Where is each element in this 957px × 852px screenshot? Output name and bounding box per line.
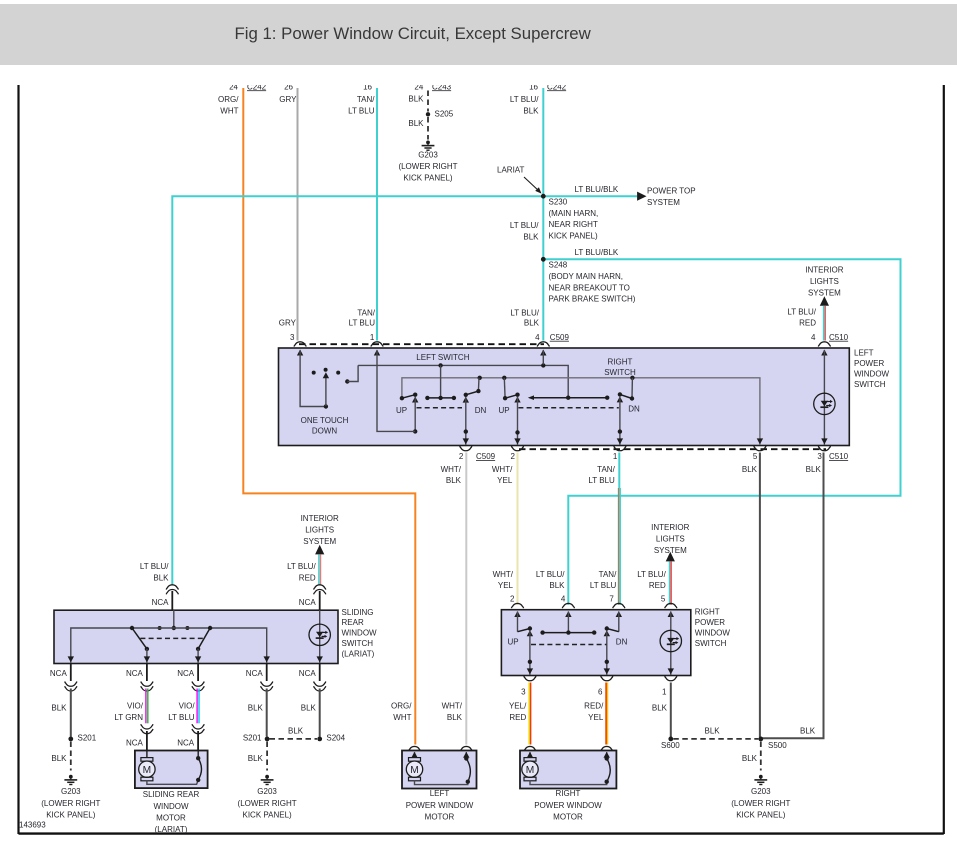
- svg-text:5: 5: [661, 594, 666, 603]
- svg-text:BLK: BLK: [742, 754, 758, 763]
- svg-text:BLK: BLK: [523, 233, 539, 242]
- svg-text:LT BLU: LT BLU: [588, 476, 615, 485]
- svg-text:ORG/: ORG/: [218, 95, 239, 104]
- svg-text:SLIDING: SLIDING: [342, 608, 374, 617]
- svg-text:4: 4: [561, 594, 566, 603]
- mechanical link left switch (dashed): [417, 407, 463, 409]
- svg-text:LT BLU/: LT BLU/: [536, 570, 565, 579]
- LARIAT callout with arrow: [497, 166, 542, 194]
- LEFT SWITCH feed line: [358, 363, 568, 398]
- wire ORG/WHT from C242 pin 24 (vertical + route to left motor): [243, 88, 415, 745]
- svg-text:BLK: BLK: [806, 465, 822, 474]
- NCA labels below sliding switch: [50, 669, 316, 678]
- svg-text:NCA: NCA: [246, 669, 264, 678]
- labels YEL/RED: [509, 702, 527, 722]
- label DN (right switch in left box): [628, 405, 640, 414]
- svg-text:TAN/: TAN/: [357, 309, 375, 318]
- svg-text:WHT/: WHT/: [442, 702, 463, 711]
- svg-text:2: 2: [459, 452, 464, 461]
- svg-text:WINDOW: WINDOW: [854, 370, 890, 379]
- svg-text:BLK: BLK: [248, 754, 264, 763]
- illumination lamp (left power window switch): [814, 350, 835, 445]
- svg-text:TAN/: TAN/: [597, 465, 615, 474]
- svg-text:S248: S248: [549, 261, 568, 270]
- label UP (right switch): [499, 406, 510, 415]
- sliding switch center feed: [158, 610, 190, 630]
- svg-text:POWER TOP: POWER TOP: [647, 187, 696, 196]
- svg-text:VIO/: VIO/: [127, 702, 144, 711]
- svg-text:(LOWER RIGHT: (LOWER RIGHT: [238, 799, 297, 808]
- svg-text:BLK: BLK: [524, 319, 540, 328]
- svg-text:BLK: BLK: [408, 95, 424, 104]
- svg-text:WHT: WHT: [220, 107, 238, 116]
- pin label 24 C242 (ORG/WHT): [229, 82, 267, 91]
- label LEFT SWITCH: [416, 353, 469, 362]
- svg-text:SLIDING REAR: SLIDING REAR: [143, 790, 200, 799]
- svg-text:2: 2: [510, 594, 515, 603]
- svg-text:RIGHT: RIGHT: [608, 358, 633, 367]
- connector arcs top pins 3 1 4 4: [294, 342, 831, 347]
- svg-text:1: 1: [662, 687, 667, 696]
- labels LT BLU/RED + NCA at lamp feed: [287, 562, 316, 607]
- svg-text:LEFT: LEFT: [854, 349, 874, 358]
- BLK dashed to ground mid: [248, 742, 267, 771]
- svg-text:MOTOR: MOTOR: [553, 813, 583, 822]
- BLK dashed to ground right: [742, 742, 761, 771]
- svg-text:LT BLU/: LT BLU/: [787, 307, 816, 316]
- svg-text:C509: C509: [550, 333, 570, 342]
- label LEFT POWER WINDOW SWITCH: [854, 349, 890, 389]
- svg-text:LT BLU: LT BLU: [349, 319, 376, 328]
- BLK solid link S500 to pin3 wire: [800, 726, 816, 735]
- wire BLK from pin 3 C510 down and left to S500: [762, 453, 824, 739]
- splice S248: [541, 257, 546, 262]
- svg-text:BLK: BLK: [446, 476, 462, 485]
- illumination lamp (right power window switch): [660, 611, 681, 675]
- svg-text:NCA: NCA: [50, 669, 68, 678]
- label RIGHT POWER WINDOW SWITCH: [695, 608, 731, 648]
- label BLK left: [51, 704, 67, 713]
- figure number 143693: [19, 821, 46, 830]
- svg-text:DN: DN: [628, 405, 640, 414]
- label LEFT POWER WINDOW MOTOR: [406, 789, 474, 821]
- svg-text:S600: S600: [661, 741, 680, 750]
- BLK dashed bus S201-S204: [270, 726, 318, 739]
- svg-text:S500: S500: [768, 741, 787, 750]
- svg-text:REAR: REAR: [342, 618, 364, 627]
- svg-text:NCA: NCA: [299, 669, 317, 678]
- svg-text:WHT/: WHT/: [441, 465, 462, 474]
- ground G203 upper: [398, 141, 457, 183]
- mechanical link right power window switch (dashed): [531, 644, 606, 646]
- svg-text:SWITCH: SWITCH: [342, 639, 374, 648]
- svg-text:NCA: NCA: [177, 738, 195, 747]
- labels WHT/BLK above left motor: [442, 702, 463, 722]
- svg-text:YEL: YEL: [497, 476, 513, 485]
- sliding switch right arm: [195, 626, 212, 663]
- label S230 (MAIN HARN NEAR RIGHT KICK PANEL): [549, 198, 599, 241]
- svg-text:BLK: BLK: [248, 704, 264, 713]
- svg-text:NEAR BREAKOUT TO: NEAR BREAKOUT TO: [549, 283, 630, 292]
- motor reversing arc (sliding rear): [196, 751, 202, 783]
- svg-text:LT BLU/: LT BLU/: [510, 309, 539, 318]
- svg-text:LT GRN: LT GRN: [114, 713, 143, 722]
- label BLK: [248, 704, 264, 713]
- svg-text:SWITCH: SWITCH: [854, 380, 886, 389]
- svg-text:POWER: POWER: [695, 618, 725, 627]
- left switch DN contact: [463, 378, 481, 445]
- inline connector NCA (VIO/LT GRN to motor): [126, 724, 153, 750]
- splice S600 + label: [661, 737, 680, 750]
- connector C509 dashed line top: [299, 343, 544, 345]
- wire WHT/BLK from pin 2 to left motor: [465, 453, 467, 745]
- motor reversing arc (left power window): [463, 752, 470, 784]
- motor M (sliding rear): [139, 751, 199, 785]
- wire LT BLU/BLK branch from S248 right and down to right switch pin 4: [543, 259, 900, 605]
- svg-text:G203: G203: [418, 151, 438, 160]
- svg-text:LT BLU/: LT BLU/: [510, 95, 539, 104]
- sliding switch bus line: [68, 628, 270, 663]
- wire LT BLU/BLK main vertical from C242 pin 16: [542, 88, 544, 341]
- svg-text:5: 5: [753, 452, 758, 461]
- svg-text:NCA: NCA: [299, 598, 317, 607]
- svg-text:(LARIAT): (LARIAT): [342, 649, 375, 658]
- svg-text:MOTOR: MOTOR: [156, 814, 186, 823]
- labels VIO/LT BLU: [168, 702, 195, 722]
- bottom pin labels 3 6 1 right switch: [521, 687, 667, 696]
- svg-text:BLK: BLK: [652, 704, 668, 713]
- svg-text:RED: RED: [299, 574, 316, 583]
- label DN (left switch): [475, 406, 487, 415]
- svg-text:YEL/: YEL/: [509, 702, 527, 711]
- sliding switch left arm: [130, 626, 150, 663]
- svg-text:SWITCH: SWITCH: [604, 368, 636, 377]
- svg-text:G203: G203: [257, 787, 277, 796]
- right switch center contacts (in left box): [528, 395, 610, 400]
- right switch DN contact (in left box): [617, 378, 635, 445]
- mechanical link sliding switch (dashed): [140, 637, 205, 639]
- pin label 26 (GRY): [284, 82, 293, 91]
- interior lights system arrow above sliding switch: [301, 514, 339, 585]
- svg-text:LIGHTS: LIGHTS: [810, 277, 839, 286]
- one touch down: link to LEFT SWITCH feed: [345, 365, 358, 383]
- svg-text:NCA: NCA: [126, 738, 144, 747]
- svg-text:DN: DN: [616, 637, 628, 646]
- inline connectors below sliding switch: [65, 664, 326, 691]
- pin label 16 (TAN/LT BLU): [363, 82, 372, 91]
- splice S230: [541, 194, 546, 199]
- svg-text:LARIAT: LARIAT: [497, 166, 525, 175]
- svg-text:WHT: WHT: [393, 713, 411, 722]
- svg-text:INTERIOR: INTERIOR: [805, 266, 843, 275]
- svg-text:M: M: [143, 765, 152, 776]
- svg-text:UP: UP: [499, 406, 510, 415]
- svg-text:BLK: BLK: [549, 581, 565, 590]
- svg-text:(LOWER RIGHT: (LOWER RIGHT: [398, 162, 457, 171]
- splice S500 + label: [758, 737, 787, 750]
- svg-text:NCA: NCA: [177, 669, 195, 678]
- top edge clip (cropped pin text): [0, 65, 957, 85]
- svg-text:6: 6: [598, 687, 603, 696]
- one touch down: pin 3 entry and contact: [297, 350, 340, 409]
- left switch UP contact: [400, 393, 419, 434]
- label BLK: [301, 704, 317, 713]
- label BLK below pin 3: [806, 465, 822, 474]
- svg-text:7: 7: [609, 594, 614, 603]
- wire LT BLU/BLK branch right to POWER TOP SYSTEM: [543, 195, 637, 197]
- svg-text:BLK: BLK: [523, 107, 539, 116]
- svg-text:LIGHTS: LIGHTS: [656, 535, 685, 544]
- svg-text:LT BLU/: LT BLU/: [637, 570, 666, 579]
- label ONE TOUCH DOWN: [301, 416, 349, 436]
- svg-text:S201: S201: [78, 734, 97, 743]
- svg-text:4: 4: [811, 333, 816, 342]
- svg-text:KICK PANEL): KICK PANEL): [736, 811, 786, 820]
- svg-text:DOWN: DOWN: [312, 426, 338, 435]
- second feed line (gray) to pin 5: [402, 376, 763, 445]
- sliding rear window switch box: [54, 610, 338, 663]
- wire VIO/LT GRN: [146, 689, 148, 724]
- labels RED/YEL: [584, 702, 604, 722]
- interior lights system arrow top right: [805, 266, 843, 341]
- svg-text:LT BLU/: LT BLU/: [510, 221, 539, 230]
- label GRY top: [279, 95, 297, 104]
- splice S204 + label: [317, 734, 345, 743]
- wire BLK to S201 right: [266, 689, 268, 737]
- svg-text:ONE TOUCH: ONE TOUCH: [301, 416, 349, 425]
- svg-text:WHT/: WHT/: [492, 465, 513, 474]
- left power window switch box: [279, 348, 850, 446]
- svg-text:ORG/: ORG/: [391, 702, 412, 711]
- svg-text:LT BLU: LT BLU: [348, 107, 375, 116]
- label RIGHT POWER WINDOW MOTOR: [534, 789, 602, 821]
- label DN (right power window switch): [616, 637, 628, 646]
- ground G203 bottom left: [41, 775, 100, 820]
- svg-text:M: M: [410, 765, 419, 776]
- svg-text:143693: 143693: [19, 821, 46, 830]
- svg-text:VIO/: VIO/: [179, 702, 196, 711]
- svg-text:BLK: BLK: [408, 119, 424, 128]
- svg-text:RED: RED: [649, 581, 666, 590]
- svg-text:WINDOW: WINDOW: [153, 802, 189, 811]
- right power window motor box: [520, 746, 616, 788]
- svg-text:KICK PANEL): KICK PANEL): [46, 811, 96, 820]
- label BLK below pin 1: [652, 704, 668, 713]
- label POWER TOP SYSTEM: [647, 187, 696, 207]
- svg-text:KICK PANEL): KICK PANEL): [549, 232, 599, 241]
- wire BLK to S201 left: [70, 689, 72, 737]
- svg-text:Fig 1: Power Window Circuit, E: Fig 1: Power Window Circuit, Except Supe…: [235, 24, 592, 43]
- svg-text:(LARIAT): (LARIAT): [155, 825, 188, 834]
- svg-text:SYSTEM: SYSTEM: [647, 198, 680, 207]
- connector arcs bottom pins right switch: [524, 676, 677, 681]
- svg-text:TAN/: TAN/: [357, 95, 375, 104]
- wire BLK pin 1 to S600: [670, 683, 672, 738]
- wire WHT/YEL from pin 2 to right switch pin 2: [517, 453, 519, 605]
- splice S201 right + label: [243, 734, 270, 743]
- svg-text:NCA: NCA: [152, 598, 170, 607]
- right switch DN contact: [604, 611, 622, 675]
- svg-text:LT BLU: LT BLU: [168, 713, 195, 722]
- svg-text:LT BLU/: LT BLU/: [140, 562, 169, 571]
- svg-text:RIGHT: RIGHT: [556, 789, 581, 798]
- right switch UP contact: [514, 611, 533, 675]
- svg-text:3: 3: [290, 333, 295, 342]
- wire BLK from pin 5 to S500: [759, 453, 761, 738]
- right switch center contacts: [540, 611, 596, 635]
- svg-text:NEAR RIGHT: NEAR RIGHT: [549, 220, 598, 229]
- svg-text:LT BLU/BLK: LT BLU/BLK: [575, 248, 619, 257]
- pin 1 entry wire to UP contact: [374, 350, 415, 432]
- inline connector NCA (VIO/LT BLU to motor): [177, 724, 204, 750]
- svg-text:S201: S201: [243, 734, 262, 743]
- svg-text:INTERIOR: INTERIOR: [651, 523, 689, 532]
- motor M (left power window): [406, 752, 468, 785]
- svg-text:PARK BRAKE SWITCH): PARK BRAKE SWITCH): [549, 295, 636, 304]
- svg-text:SWITCH: SWITCH: [695, 639, 727, 648]
- label LT BLU/BLK above pin 4 C509: [0, 0, 1, 1]
- wire TAN/LT BLU from pin 16 to switch pin 1: [376, 88, 378, 341]
- interior lights system arrow above right switch: [651, 523, 689, 605]
- label TAN/LT BLU above switch + pin 1: [349, 309, 376, 342]
- svg-text:NCA: NCA: [126, 669, 144, 678]
- svg-text:UP: UP: [508, 637, 519, 646]
- svg-text:KICK PANEL): KICK PANEL): [403, 174, 453, 183]
- svg-text:YEL: YEL: [588, 713, 604, 722]
- svg-text:SYSTEM: SYSTEM: [303, 537, 336, 546]
- header title bar: [0, 4, 957, 65]
- svg-text:GRY: GRY: [279, 318, 297, 327]
- labels LT BLU/BLK + NCA at sliding switch feed: [140, 562, 169, 607]
- svg-text:S205: S205: [435, 110, 454, 119]
- labels WHT/YEL below pin 2: [492, 465, 513, 485]
- left power window motor box: [402, 746, 477, 788]
- pin numbers 2 4 7 5 above right switch: [510, 594, 666, 603]
- svg-text:1: 1: [613, 452, 618, 461]
- BLK dashed bus S600-S500: [673, 726, 758, 739]
- svg-text:LT BLU: LT BLU: [590, 581, 617, 590]
- connector arcs bottom pins 2 2 1 5 3: [460, 446, 831, 451]
- svg-text:RED: RED: [799, 319, 816, 328]
- motor M (right power window): [522, 752, 607, 785]
- ground G203 bottom right: [731, 775, 790, 820]
- svg-text:POWER WINDOW: POWER WINDOW: [406, 801, 474, 810]
- svg-text:BLK: BLK: [800, 726, 816, 735]
- label GRY above switch + pin 3: [279, 318, 297, 341]
- label LT BLU/BLK between S230 and S248: [510, 221, 539, 241]
- svg-text:BLK: BLK: [51, 704, 67, 713]
- labels TAN/LT BLU below pin 1: [588, 465, 615, 485]
- right power window switch box: [501, 610, 690, 676]
- left switch center contacts: [425, 365, 456, 400]
- mechanical link right switch (dashed): [518, 407, 618, 409]
- svg-text:LT BLU/BLK: LT BLU/BLK: [575, 185, 619, 194]
- BLK dashed to ground left: [51, 742, 70, 771]
- svg-text:SYSTEM: SYSTEM: [808, 288, 841, 297]
- svg-text:DN: DN: [475, 406, 487, 415]
- svg-text:C510: C510: [829, 452, 849, 461]
- svg-text:WINDOW: WINDOW: [342, 629, 378, 638]
- svg-text:WINDOW: WINDOW: [695, 629, 731, 638]
- labels WHT/BLK below pin 2: [441, 465, 462, 485]
- svg-text:RED/: RED/: [584, 702, 604, 711]
- svg-text:POWER WINDOW: POWER WINDOW: [534, 801, 602, 810]
- wire VIO/LT BLU: [197, 689, 199, 724]
- label LT BLU/BLK on power-top feed: [575, 185, 619, 194]
- svg-text:BLK: BLK: [705, 726, 721, 735]
- wire BLK to S204: [319, 689, 321, 737]
- svg-text:4: 4: [535, 333, 540, 342]
- inline connector NCA (LT BLU/RED to sliding switch lamp): [314, 585, 326, 610]
- svg-text:BLK: BLK: [51, 754, 67, 763]
- label RIGHT SWITCH (inside left box): [604, 358, 636, 378]
- splice S201 left + label: [68, 734, 96, 743]
- svg-text:WHT/: WHT/: [493, 570, 514, 579]
- svg-text:RED: RED: [509, 713, 526, 722]
- svg-text:BLK: BLK: [153, 574, 169, 583]
- svg-text:(MAIN HARN,: (MAIN HARN,: [549, 209, 599, 218]
- label ORG/WHT top: [218, 95, 239, 115]
- pin 4 C509 entry into box: [540, 350, 546, 365]
- svg-text:S230: S230: [549, 198, 568, 207]
- label LT BLU/BLK on S248 branch: [575, 248, 619, 257]
- svg-text:RIGHT: RIGHT: [695, 608, 720, 617]
- wire TAN/LT BLU from pin 1 to right switch pin 7: [619, 453, 621, 605]
- svg-text:YEL: YEL: [498, 581, 514, 590]
- bottom pin labels 2 C509 2 1 5 3 C510: [459, 452, 849, 461]
- svg-text:GRY: GRY: [279, 95, 297, 104]
- svg-text:LT BLU/: LT BLU/: [287, 562, 316, 571]
- svg-text:BLK: BLK: [288, 726, 304, 735]
- svg-text:1: 1: [370, 333, 375, 342]
- right switch UP contact (in left box): [503, 378, 521, 445]
- labels above right switch pins 2 4 7 5: [493, 570, 667, 590]
- svg-text:MOTOR: MOTOR: [425, 813, 455, 822]
- connector C509/C510 dashed line bottom: [519, 448, 826, 450]
- wire YEL/RED pin 3 to right motor: [529, 683, 530, 745]
- svg-text:3: 3: [817, 452, 822, 461]
- motor reversing arc (right power window): [604, 752, 611, 784]
- svg-text:UP: UP: [396, 406, 407, 415]
- label TAN/LT BLU top: [348, 95, 375, 115]
- label UP (right power window switch): [508, 637, 519, 646]
- label LT BLU/BLK above switch + pin 4 C509: [510, 309, 569, 342]
- svg-text:LEFT SWITCH: LEFT SWITCH: [416, 353, 469, 362]
- svg-text:BLK: BLK: [742, 465, 758, 474]
- pin label 16 C242 (LT BLU/BLK): [529, 82, 567, 91]
- svg-text:3: 3: [521, 687, 526, 696]
- label LT BLU/RED top right + pin 4 C510: [787, 307, 848, 342]
- wire GRY from pin 26: [297, 88, 299, 341]
- svg-text:POWER: POWER: [854, 359, 884, 368]
- illumination lamp (sliding rear switch): [309, 610, 330, 663]
- svg-text:C510: C510: [829, 333, 849, 342]
- wire RED/YEL pin 6 to right motor: [606, 683, 608, 745]
- inline connector NCA (LT BLU/BLK to sliding switch): [166, 585, 178, 610]
- connector arcs top pins right switch: [511, 603, 677, 608]
- svg-text:BLK: BLK: [301, 704, 317, 713]
- svg-text:(BODY MAIN HARN,: (BODY MAIN HARN,: [549, 272, 624, 281]
- svg-text:C509: C509: [476, 452, 496, 461]
- labels VIO/LT GRN: [114, 702, 143, 722]
- arrow to POWER TOP SYSTEM: [637, 192, 646, 201]
- svg-text:M: M: [526, 765, 535, 776]
- label LT BLU/BLK top: [510, 95, 539, 115]
- svg-text:LEFT: LEFT: [430, 789, 450, 798]
- splice chain S205 to ground G203 upper: [408, 82, 453, 139]
- label BLK below pin 5: [742, 465, 758, 474]
- label SLIDING REAR WINDOW SWITCH (LARIAT): [342, 608, 378, 659]
